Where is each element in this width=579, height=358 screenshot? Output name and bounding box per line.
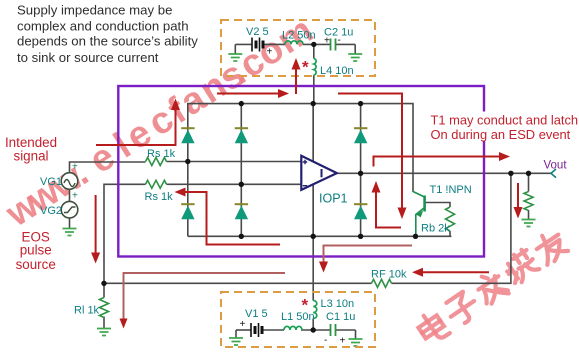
svg-text:L4 10n: L4 10n bbox=[320, 65, 354, 77]
svg-text:Rs 1k: Rs 1k bbox=[147, 148, 176, 160]
svg-text:VG1: VG1 bbox=[40, 176, 62, 188]
svg-text:Vout: Vout bbox=[544, 160, 568, 172]
svg-text:V1 5: V1 5 bbox=[245, 308, 268, 320]
svg-text:VG2: VG2 bbox=[40, 205, 62, 217]
svg-text:V2 5: V2 5 bbox=[246, 26, 269, 38]
svg-text:T1 !NPN: T1 !NPN bbox=[430, 184, 472, 196]
svg-text:C2 1u: C2 1u bbox=[324, 27, 353, 39]
svg-text:L1 50n: L1 50n bbox=[281, 311, 315, 323]
svg-text:On during an ESD event: On during an ESD event bbox=[431, 127, 571, 142]
svg-text:L2 50n: L2 50n bbox=[282, 30, 316, 42]
svg-text:to sink or source current: to sink or source current bbox=[17, 50, 159, 65]
svg-text:L3 10n: L3 10n bbox=[321, 298, 355, 310]
svg-text:+: + bbox=[72, 162, 78, 173]
svg-text:Rb 2k: Rb 2k bbox=[421, 223, 450, 235]
svg-text:source: source bbox=[16, 257, 56, 272]
svg-text:Supply impedance may be: Supply impedance may be bbox=[17, 3, 172, 18]
svg-text:+: + bbox=[340, 336, 346, 347]
svg-text:C1 1u: C1 1u bbox=[326, 311, 355, 323]
svg-text:-: - bbox=[324, 335, 327, 346]
svg-text:RF 10k: RF 10k bbox=[371, 269, 407, 281]
svg-text:+: + bbox=[267, 47, 273, 58]
svg-text:pulse: pulse bbox=[20, 243, 52, 258]
svg-text:T1 may conduct and latch: T1 may conduct and latch bbox=[431, 113, 579, 128]
svg-text:+: + bbox=[240, 319, 246, 330]
svg-text:signal: signal bbox=[14, 149, 49, 164]
svg-text:+: + bbox=[72, 191, 78, 202]
svg-text:depends on the source’s abilit: depends on the source’s ability bbox=[17, 34, 198, 49]
svg-text:Rl 1k: Rl 1k bbox=[74, 305, 100, 317]
svg-text:*: * bbox=[302, 58, 309, 77]
svg-text:IOP1: IOP1 bbox=[319, 192, 348, 206]
svg-text:Rs 1k: Rs 1k bbox=[145, 191, 174, 203]
svg-text:complex and conduction path: complex and conduction path bbox=[17, 18, 189, 33]
